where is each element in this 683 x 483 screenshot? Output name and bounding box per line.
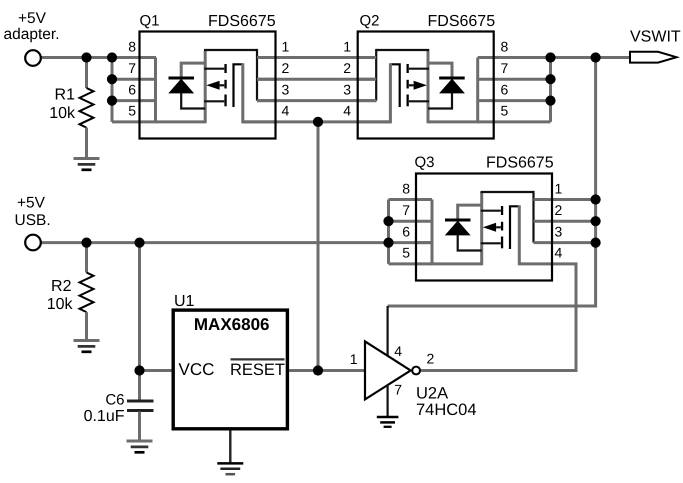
svg-text:VCC: VCC [179, 360, 215, 379]
terminal: +5V USB [25, 235, 41, 251]
svg-text:1: 1 [282, 38, 290, 54]
wire: VCC pin of U1 [140, 369, 175, 372]
svg-text:10k: 10k [49, 105, 76, 122]
wire: C6 bottom lead [138, 412, 141, 441]
svg-text:74HC04: 74HC04 [416, 401, 477, 419]
wire: VSWIT bus down to inverter pin 4 [388, 58, 596, 307]
transistor Q1 FDS6675 [140, 32, 276, 139]
svg-text:5: 5 [402, 245, 410, 261]
node: Q1 bus row 7 [107, 74, 117, 84]
ground at C6 [127, 441, 153, 452]
ground at R2 [74, 341, 100, 352]
svg-text:R1: R1 [55, 87, 76, 104]
node: VSWIT bus Q3 row 1 [591, 194, 601, 204]
node: Q3 bus row 7 [383, 216, 393, 226]
svg-text:FDS6675: FDS6675 [208, 13, 276, 30]
wire: Q3 pin 8 stub [389, 198, 417, 201]
svg-text:7: 7 [128, 60, 136, 76]
svg-text:0.1uF: 0.1uF [84, 408, 125, 425]
inverter output bubble [412, 367, 420, 375]
node: Q2 bus row 8 [545, 52, 555, 62]
svg-text:3: 3 [343, 81, 351, 97]
wire: U1 ground lead [229, 430, 231, 463]
node: adapter/R1 [81, 52, 91, 62]
svg-text:RESET: RESET [230, 361, 285, 379]
svg-text:4: 4 [555, 245, 563, 261]
node: VCC/C6 [134, 365, 144, 375]
svg-text:4: 4 [343, 103, 351, 119]
wire: Q3 pin 7 stub [389, 220, 417, 223]
ground at U2A [377, 417, 399, 427]
IC U1 MAX6806 [173, 310, 287, 429]
svg-text:FDS6675: FDS6675 [486, 154, 554, 171]
wire: R2 bottom lead [85, 312, 88, 340]
wire: Q2 right stubs rows 8,7,6,5 [493, 79, 551, 122]
node: Q3 bus row 6 [383, 238, 393, 248]
svg-text:5: 5 [501, 103, 509, 119]
wire: R1 bottom lead [85, 128, 88, 158]
node: Q2 bus row 6 [545, 96, 555, 106]
svg-text:10k: 10k [47, 296, 74, 313]
svg-text:FDS6675: FDS6675 [428, 13, 496, 30]
node: Q2 bus row 7 [545, 74, 555, 84]
wire: rows 1-3 between Q1 and Q2 [257, 58, 377, 101]
svg-text:4: 4 [282, 103, 290, 119]
svg-text:6: 6 [128, 81, 136, 97]
svg-text:2: 2 [343, 60, 351, 76]
svg-text:Q3: Q3 [415, 154, 435, 171]
svg-text:7: 7 [402, 202, 410, 218]
node: gate row / RESET drop [313, 117, 323, 127]
svg-text:2: 2 [555, 202, 563, 218]
transistor Q3 FDS6675 [416, 174, 552, 281]
svg-text:8: 8 [402, 180, 410, 196]
wire: VSWIT output row [493, 56, 630, 59]
capacitor C6 [127, 400, 154, 403]
node: USB/VCC drop [134, 238, 144, 248]
wire: R2 top lead [85, 243, 88, 273]
svg-text:U2A: U2A [416, 384, 448, 402]
svg-text:6: 6 [501, 81, 509, 97]
svg-text:3: 3 [282, 81, 290, 97]
svg-text:5: 5 [128, 103, 136, 119]
svg-text:4: 4 [394, 343, 402, 359]
wire: Q3 pin 5 stub [389, 262, 417, 265]
wire: C6 top lead [138, 371, 141, 401]
wire: Q1 pin 6 stub [112, 99, 140, 102]
resistor R1 [80, 88, 94, 128]
svg-text:C6: C6 [105, 391, 124, 408]
wire: R1 top lead [85, 58, 88, 89]
resistor R2 [80, 273, 94, 313]
wire: Q2 right bus [549, 58, 552, 122]
ground at U1 [217, 463, 243, 474]
wire: Q3 gate to inverter output [421, 264, 576, 371]
node: VSWIT tap [591, 52, 601, 62]
wire: inverter pin 4 drop [387, 306, 389, 355]
wire: Q1 pin 5 stub [112, 120, 140, 123]
svg-text:2: 2 [427, 351, 435, 367]
node: USB/R2 [81, 238, 91, 248]
ground at R1 [74, 159, 100, 170]
svg-text:1: 1 [350, 351, 358, 367]
svg-text:8: 8 [501, 38, 509, 54]
inverter U2A triangle [365, 341, 411, 399]
wire: +5V USB row (Q3 pin 6) [41, 241, 432, 244]
wire: Q3 right stubs rows 1,2,3 [552, 200, 596, 243]
RESET overline [231, 358, 285, 360]
wire: gate node down to RESET node [317, 122, 320, 371]
svg-text:1: 1 [555, 180, 563, 196]
svg-text:R2: R2 [51, 278, 72, 295]
node: RESET/inverter input [313, 365, 323, 375]
wire: Q3 left bus [387, 200, 390, 264]
wire: inverter pin 7 ground lead [387, 385, 389, 417]
wire: +5V adapter to Q1 pins 5-8 (row 8) [41, 56, 156, 59]
svg-text:1: 1 [343, 38, 351, 54]
node: VSWIT bus Q3 row 3 [591, 238, 601, 248]
svg-text:+5V: +5V [18, 10, 47, 27]
svg-text:USB.: USB. [15, 212, 51, 229]
node: Q1 bus row 6 [107, 96, 117, 106]
svg-text:3: 3 [555, 223, 563, 239]
svg-text:7: 7 [394, 382, 402, 398]
svg-text:MAX6806: MAX6806 [194, 315, 270, 334]
transistor Q2 FDS6675 (mirrored) [358, 32, 494, 139]
wire: USB node down to VCC node [138, 243, 141, 371]
svg-text:+5V: +5V [17, 195, 46, 212]
svg-text:VSWIT: VSWIT [630, 29, 681, 46]
svg-text:6: 6 [402, 223, 410, 239]
wire: RESET output of U1 to inverter input [287, 369, 366, 372]
wire: Q1 left bus [111, 58, 114, 122]
wire: gate row 4 between Q1 and Q2 [243, 120, 391, 123]
svg-text:7: 7 [501, 60, 509, 76]
node: Q1 bus row 8 [107, 52, 117, 62]
svg-text:U1: U1 [174, 293, 195, 310]
svg-text:Q2: Q2 [360, 12, 380, 29]
svg-text:Q1: Q1 [140, 12, 160, 29]
svg-text:2: 2 [282, 60, 290, 76]
connector: VSWIT [630, 52, 677, 63]
terminal: +5V adapter [25, 50, 41, 66]
svg-text:adapter.: adapter. [4, 26, 60, 43]
svg-text:8: 8 [128, 38, 136, 54]
wire: Q1 pin 7 stub [112, 78, 140, 81]
node: VSWIT bus Q3 row 2 [591, 216, 601, 226]
